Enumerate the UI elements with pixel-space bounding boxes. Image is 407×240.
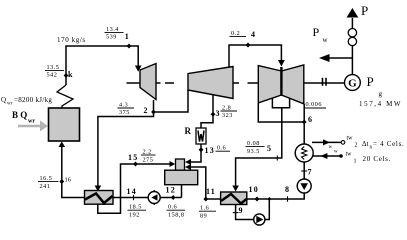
svg-text:170 kg/s: 170 kg/s (57, 36, 86, 44)
svg-text:0.6: 0.6 (217, 145, 226, 152)
svg-text:7: 7 (308, 168, 312, 177)
wire LP exhaust right to condenser (303, 104, 305, 145)
fraction 13.5/542 node k (45, 64, 64, 79)
node 1 (127, 44, 132, 49)
node 15 (133, 162, 138, 167)
wire deaerator tank down leg (181, 185, 183, 198)
svg-text:k: k (68, 70, 73, 79)
svg-text:wr: wr (7, 102, 13, 107)
svg-text:2: 2 (144, 106, 148, 115)
fraction 0.2 node 4 (230, 30, 247, 37)
svg-text:9: 9 (239, 206, 243, 215)
wire node 3 to valve R (201, 114, 213, 128)
wire node 11 riser to deaerator (188, 167, 206, 199)
wire node 2 to IP inlet (154, 90, 189, 112)
svg-text:0.2: 0.2 (231, 30, 240, 37)
wire main steam top (66, 46, 138, 85)
svg-text:P: P (367, 74, 374, 89)
wire pump down to condensate line (206, 193, 304, 199)
node k (64, 73, 69, 78)
wire P line upper (351, 18, 353, 29)
wire HP exhaust to node 2 (153, 100, 155, 112)
node 16 (59, 179, 64, 184)
condensate pump (297, 179, 311, 193)
boiler fuel arrow (grey) (18, 121, 48, 132)
svg-text:6: 6 (308, 115, 312, 124)
wire IP exhaust top to crossover (229, 45, 281, 67)
svg-text:tw: tw (347, 136, 354, 142)
deaerator dome (176, 159, 185, 170)
svg-text:15: 15 (128, 153, 138, 162)
LP heater (221, 192, 247, 205)
wire Pw tap (330, 57, 353, 59)
svg-text:16: 16 (65, 177, 72, 184)
svg-text:2.8: 2.8 (222, 105, 231, 112)
svg-text:158,8: 158,8 (168, 211, 184, 218)
fraction 18.5/192 node 14 (128, 204, 147, 219)
svg-text:1: 1 (125, 32, 129, 41)
HP inlet arrow (135, 66, 142, 72)
svg-text:2: 2 (355, 143, 358, 149)
svg-text:0.006: 0.006 (306, 101, 322, 108)
wire HP heater drain loop (98, 164, 171, 213)
node 9 tick (233, 212, 239, 214)
Pw arrow (319, 54, 330, 62)
node 12 (171, 195, 176, 200)
fraction 2.8/323 node 3 (221, 105, 238, 120)
svg-text:B Q: B Q (12, 110, 27, 120)
valve R (196, 128, 206, 144)
fraction 0.08/93.5 node 5 (246, 140, 265, 155)
svg-text:P: P (361, 3, 368, 18)
node 4 (246, 43, 251, 48)
fraction 1.6/89 (199, 205, 216, 220)
svg-text:2.2: 2.2 (143, 149, 152, 156)
svg-text:1: 1 (354, 159, 357, 165)
boiler B (49, 108, 80, 141)
arrow into dome right upper (185, 159, 191, 165)
wire drain pump to condensate line (265, 199, 269, 220)
node 3 (211, 112, 216, 117)
svg-text:192: 192 (129, 211, 140, 218)
svg-text:4.3: 4.3 (119, 102, 128, 109)
HP heater (85, 191, 114, 205)
boiler zigzag riser (57, 85, 73, 108)
feedwater arrow into boiler (59, 142, 66, 148)
svg-text:5: 5 (267, 144, 271, 153)
svg-text:12: 12 (166, 186, 176, 195)
svg-text:wr: wr (28, 119, 35, 125)
svg-text:4: 4 (251, 30, 255, 39)
drain pump (254, 214, 265, 225)
svg-text:375: 375 (119, 109, 130, 116)
wire node 2 extraction to HP heater (98, 112, 154, 186)
svg-text:10: 10 (249, 185, 259, 194)
LP inlet arrow (278, 60, 285, 67)
junction drain pump (267, 197, 271, 201)
svg-text:11: 11 (206, 187, 216, 196)
LP heater steam arrow (232, 186, 239, 192)
feed pump (148, 190, 160, 205)
fraction 0.006 node 6 (305, 101, 327, 108)
svg-text:16.5: 16.5 (40, 175, 53, 182)
node 2 (151, 110, 156, 115)
svg-text:tw: tw (346, 152, 353, 158)
fraction 0.6 node 13 (216, 145, 231, 152)
LP center inlet line (280, 67, 282, 95)
cooling water in line (312, 155, 340, 157)
shaft stub HP left (127, 82, 141, 84)
svg-text:R: R (185, 126, 192, 136)
node 14 tick (133, 195, 135, 200)
wire valve R to node 13 to deaerator (188, 144, 201, 162)
wire LP crossover box left (272, 98, 289, 108)
svg-text:13.5: 13.5 (47, 64, 60, 71)
wire condenser to pump (303, 162, 305, 179)
shaft stub HP right (156, 82, 161, 84)
cooling water out line (312, 141, 342, 143)
shaft dash HP-IP (165, 82, 174, 84)
fraction 0.6/158.8 node 12 (167, 204, 186, 219)
IP turbine (188, 67, 233, 99)
deaerator tank (165, 170, 198, 185)
cooling water in arrow (320, 153, 327, 159)
svg-text:= 4 Cels.: = 4 Cels. (373, 140, 404, 148)
svg-text:1.6: 1.6 (200, 205, 209, 212)
svg-text:=8200 kJ/kg: =8200 kJ/kg (14, 96, 52, 104)
node 10 (255, 197, 260, 202)
svg-text:542: 542 (47, 72, 58, 79)
svg-text:275: 275 (143, 157, 154, 164)
svg-text:P: P (313, 25, 320, 39)
svg-text:323: 323 (222, 112, 233, 119)
svg-text:Q: Q (1, 96, 6, 104)
svg-text:539: 539 (106, 34, 117, 41)
wire LP heater drain to drain pump (236, 205, 254, 220)
LP turbine double flow (258, 66, 281, 103)
node 13 (199, 147, 204, 152)
svg-text:g: g (379, 90, 383, 98)
shaft stub IP right (233, 82, 239, 84)
fraction 13.4/539 node 1 (105, 26, 124, 41)
svg-text:3: 3 (216, 109, 220, 118)
svg-text:8: 8 (285, 185, 289, 194)
wire node 5 extraction to LP heater (236, 108, 282, 186)
node 5 tick (276, 156, 278, 161)
svg-text:w: w (334, 150, 338, 155)
node 11 (203, 197, 208, 202)
wire feedwater line left (62, 147, 182, 198)
svg-text:14: 14 (127, 187, 137, 196)
arrow into dome right lower (185, 164, 191, 170)
fraction 16.5/241 node 16 (38, 175, 59, 190)
wire generator shaft (304, 82, 345, 84)
HP turbine (140, 64, 156, 100)
svg-text:241: 241 (40, 183, 51, 190)
HP heater steam arrow (95, 186, 102, 192)
svg-text:0.08: 0.08 (247, 140, 260, 147)
svg-text:89: 89 (200, 212, 207, 219)
node 8 tick (287, 196, 289, 201)
svg-text:w: w (329, 145, 333, 150)
shaft stub LP left (248, 82, 259, 84)
generator coupling (322, 78, 324, 86)
wire LP exhaust left (258, 103, 304, 122)
transformer circles (348, 37, 356, 45)
svg-text:18.5: 18.5 (129, 204, 142, 211)
svg-text:0.6: 0.6 (168, 204, 177, 211)
generator G (345, 75, 361, 91)
arrow into dome left (170, 161, 176, 167)
svg-text:20 Cels.: 20 Cels. (363, 155, 392, 163)
node 7 tick (301, 170, 307, 172)
svg-text:G: G (348, 78, 357, 90)
svg-text:13: 13 (205, 146, 215, 155)
condenser (295, 144, 313, 162)
fraction 4.3/375 node 2 (118, 102, 135, 117)
P output arrow (347, 8, 359, 18)
wire IP exhaust bottom to node 3 (212, 95, 214, 114)
svg-text:157,4 MW: 157,4 MW (359, 100, 402, 108)
svg-text:Δt: Δt (362, 140, 369, 148)
cooling water out arrow (323, 139, 330, 145)
node 6 (302, 120, 307, 125)
fraction 2.2/275 node 15 (141, 149, 156, 164)
svg-text:93.5: 93.5 (247, 148, 260, 155)
wire generator to P arrow (351, 46, 353, 75)
